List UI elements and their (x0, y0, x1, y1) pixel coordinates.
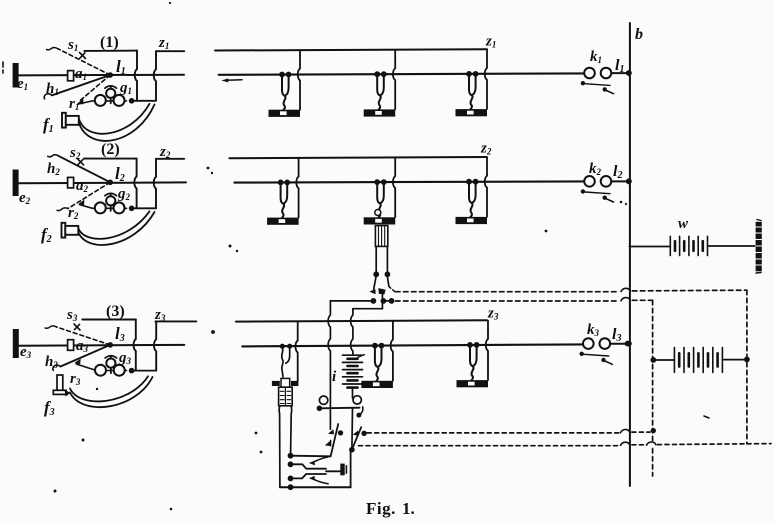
svg-text:(2): (2) (101, 141, 120, 158)
relay fork lower (291, 474, 327, 478)
dashed wire B (396, 300, 620, 302)
switch arm 1 (331, 424, 339, 456)
node coil junction 2 (129, 206, 135, 212)
lever pivot node (317, 406, 323, 412)
wire to battery branch (353, 308, 383, 310)
hop over b (C) (621, 429, 630, 432)
battery i plates (343, 355, 363, 384)
wire squiggle lead (282, 347, 283, 377)
contact s2 (78, 159, 84, 165)
battery tick (358, 355, 365, 358)
resistance box under unit row2-2 (375, 226, 387, 247)
dashed wire C (367, 432, 619, 434)
wire right lead down (386, 246, 388, 271)
wire row3 top bus (236, 320, 487, 321)
wire coil line (92, 100, 126, 102)
arm2 contact node (361, 431, 366, 436)
dashed box right edge (746, 290, 748, 444)
svg-text:b: b (635, 26, 643, 43)
hop over b (B) (621, 298, 630, 301)
dashed blade position (389, 287, 395, 292)
wire vertical from z1 stub (154, 51, 156, 100)
node b row2 (626, 178, 632, 184)
contact ring right (353, 396, 361, 404)
wire node1 to arm1 (291, 455, 331, 458)
switch arm dashed to r1 (79, 75, 110, 102)
wire row2 main line (234, 181, 584, 182)
wire loop arc inner 2 (78, 211, 149, 239)
wire short contact link (383, 300, 391, 302)
contact circle on unit row2-2 (375, 210, 381, 216)
node on contact wire (371, 298, 377, 304)
node row3-1 right (287, 344, 292, 349)
hop over b (D) (621, 442, 630, 445)
wire battery axis to lower switch (351, 408, 354, 450)
switch arm h3 (61, 345, 111, 367)
wire loop arc inner 3 (70, 376, 148, 401)
dashed wire A (396, 291, 620, 293)
arm 2 base node (349, 447, 355, 453)
node upper switch left (373, 271, 379, 277)
relay unit row2-3 (456, 158, 488, 225)
wire loop arc outer (79, 105, 155, 141)
relay coils k2 (581, 176, 632, 202)
wire top line (2) (84, 158, 137, 160)
coil cylinder hatched (279, 387, 293, 406)
wire coil connector (132, 100, 156, 102)
key a3 (68, 340, 74, 351)
hop over b (A) (621, 288, 630, 291)
relay unit row1-3 (456, 50, 488, 117)
svg-text:(3): (3) (106, 303, 125, 320)
node battery left (650, 357, 656, 363)
wire vertical from z3 stub (154, 322, 156, 371)
relay unit row1-1 (269, 50, 301, 117)
wire main line station 2 (18, 181, 186, 184)
wire top line (1) (84, 50, 137, 52)
dashed wire C right (632, 431, 650, 433)
galvanometer g2 (95, 193, 125, 213)
wire battery left (653, 359, 674, 361)
relay unit row3-2 (361, 321, 393, 388)
wire row3 main line (242, 344, 583, 346)
node upper switch right (385, 271, 391, 277)
earth electrode e2 (13, 170, 19, 197)
wire z2 stub (156, 158, 184, 160)
contact tick (330, 440, 332, 445)
wire coil connector 2 (132, 207, 156, 209)
svg-text:1.: 1. (402, 499, 415, 518)
wire w to earth (708, 245, 758, 247)
battery plates (674, 347, 722, 372)
arm1 contact node (338, 430, 343, 435)
wire coil line 3 (96, 370, 127, 372)
base right block (291, 381, 298, 386)
plug f1 (62, 113, 66, 128)
relay unit row2-2 (364, 158, 396, 225)
contact tail node (356, 413, 361, 418)
wire z3 stub (155, 320, 196, 322)
lever bar (319, 407, 359, 410)
node coil junction (129, 98, 135, 104)
node row3-1 left (280, 344, 285, 349)
wire vertical from (1) line (135, 51, 137, 101)
switch arm dashed to r2 (68, 182, 110, 208)
wire loop arc outer 2 (78, 212, 154, 245)
wire contact block stem (381, 295, 383, 309)
galvanometer g1 (95, 86, 125, 106)
contact s1 (80, 53, 86, 59)
switch blade left (374, 277, 376, 289)
node l1 pivot (107, 72, 113, 78)
contact r1 arrow (77, 99, 83, 105)
bus line b (629, 23, 631, 486)
wire row1 main line (219, 73, 585, 74)
wire w branch (630, 246, 671, 248)
wire main line station 3 (18, 344, 184, 347)
node b row3 (626, 341, 632, 347)
node contact a (381, 298, 387, 304)
dashed box left edge (652, 300, 654, 476)
contact block (378, 288, 385, 295)
dashed wire A right (632, 289, 747, 292)
earth electrode e1 (13, 63, 19, 88)
wire left branch vertical (328, 301, 330, 429)
switch arm 2 (352, 427, 361, 450)
tube wall right (291, 406, 292, 454)
earth electrode right (756, 222, 762, 271)
armature plate (281, 378, 290, 387)
dashed wire B right (632, 299, 652, 301)
wire coil connector 3 (132, 370, 157, 372)
key a1 (68, 71, 74, 81)
tube wall left (278, 406, 281, 487)
node l2 pivot (107, 180, 113, 186)
wire vertical from (3) line (134, 320, 136, 371)
contact tail (359, 407, 363, 415)
node on left edge (651, 428, 656, 433)
hop of box edge over D (647, 442, 656, 445)
relay node 4 (288, 484, 294, 490)
relay plug (340, 464, 344, 476)
relay unit row2-1 (267, 158, 299, 225)
relay fork upper (291, 464, 327, 468)
contact arrow upper-left (328, 429, 334, 434)
wire left lead down (375, 246, 377, 271)
relay coils k3 (580, 338, 631, 364)
dashed wire D right (632, 444, 645, 446)
node contact b (389, 298, 395, 304)
wire vertical from (2) line (134, 159, 136, 209)
switch arm h1 (52, 75, 110, 95)
contact arrow left (369, 289, 375, 294)
contact ring left (319, 396, 327, 404)
arm2 contact arrow (353, 431, 359, 436)
wire right lead curl (286, 347, 290, 363)
relay arrow upper (309, 461, 315, 466)
relay arrow lower (309, 476, 315, 481)
relay node 3 (288, 476, 294, 482)
switch blade right (387, 277, 389, 286)
wire battery bottom stem (352, 388, 354, 398)
svg-text:w: w (678, 216, 689, 232)
wire main line station 1 (18, 74, 184, 77)
galvanometer g3 (95, 356, 125, 376)
node b row1 (626, 70, 632, 76)
wire row2 top bus (229, 157, 487, 158)
contact r2 arrow (78, 200, 84, 206)
base left block (272, 381, 280, 386)
svg-text:Fig.: Fig. (366, 499, 396, 518)
resistance w (670, 236, 707, 255)
switch arm h2 on s2 (59, 156, 110, 182)
relay tongue (326, 470, 340, 472)
plug f3 (57, 375, 63, 390)
relay node 1 (288, 453, 294, 459)
wire r1 to coil (79, 101, 93, 104)
wire coil line 2 (92, 207, 126, 209)
contact arrow lower-left (325, 441, 331, 446)
key a2 (68, 177, 74, 188)
wire loop arc inner (79, 104, 150, 134)
dashed wire D (359, 445, 620, 447)
relay node 2 (288, 461, 294, 467)
wire top line (3) (82, 319, 136, 321)
wire battery branch vertical (351, 309, 353, 355)
relay coils k1 (581, 68, 632, 94)
wire z1 stub (156, 50, 184, 52)
contact s3 (74, 324, 80, 330)
node l3 pivot (107, 342, 113, 348)
contact r3 arrow (74, 359, 80, 365)
wire r3 to coil (76, 364, 95, 370)
wire relay bottom (280, 486, 351, 488)
wire bus vertical row3-1 (295, 322, 297, 382)
relay unit row1-2 (364, 50, 396, 117)
earth electrode e3 (13, 329, 19, 358)
wire vertical from z2 stub (154, 159, 156, 208)
plug f2 (62, 223, 66, 238)
arrow on row1 line (226, 79, 242, 82)
wire row1 top bus (215, 49, 487, 50)
switch arm dashed to s3 (57, 327, 111, 345)
node battery right (744, 357, 750, 363)
wire battery right (722, 359, 747, 361)
svg-text:(1): (1) (100, 34, 119, 51)
node coil junction 3 (129, 368, 135, 374)
relay unit row3-3 (457, 321, 489, 388)
wire r2 to coil (80, 205, 93, 209)
wire loop arc outer 3 (70, 377, 153, 407)
wire relay right vertical (350, 449, 352, 487)
switch arm dashed to s1 (58, 49, 110, 75)
wire to left branch (330, 300, 373, 302)
